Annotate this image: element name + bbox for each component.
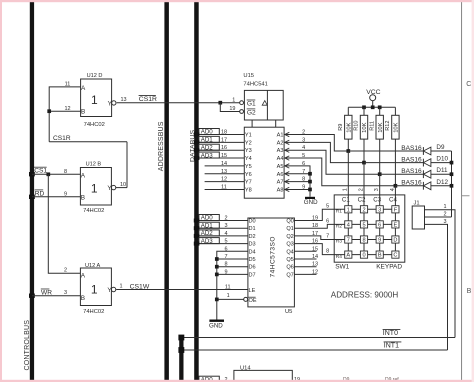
svg-text:A8: A8 <box>277 187 284 193</box>
DATABUS bus line <box>194 0 199 382</box>
U14 pin 19 number <box>294 377 300 383</box>
wire stub U5 Q6 <box>294 266 316 268</box>
svg-text:D7: D7 <box>249 272 256 278</box>
keypad key E <box>392 221 399 229</box>
U15 input arrow pin 5 <box>285 156 290 160</box>
svg-text:2: 2 <box>362 207 365 213</box>
svg-text:1: 1 <box>347 207 350 213</box>
U5 LE label <box>249 288 256 294</box>
keypad column 3 pin number <box>374 188 380 191</box>
wire WR to U12A.B <box>32 295 81 297</box>
U5 D4 label <box>249 249 256 255</box>
svg-text:A: A <box>81 85 86 92</box>
bus tap square AD3 U15 <box>194 156 200 160</box>
keypad column 1 line <box>347 195 349 255</box>
U14 pin 2 number <box>224 377 227 383</box>
net flag AD3 at U15 <box>199 152 219 159</box>
U5 OE label <box>248 297 257 304</box>
svg-text:19: 19 <box>229 106 235 112</box>
U15 A8 label <box>277 187 284 193</box>
svg-text:BAS16: BAS16 <box>401 156 422 163</box>
U15 input arrow pin 4 <box>285 148 290 152</box>
svg-text:GND: GND <box>209 323 223 330</box>
svg-text:D11: D11 <box>436 167 448 174</box>
keypad key 5 <box>360 221 367 229</box>
wire diode D9 anode right <box>431 150 452 152</box>
svg-text:ADDRESS: 9000H: ADDRESS: 9000H <box>331 291 399 300</box>
wire CS1 to U12B.A <box>32 173 81 175</box>
U5 right pin 17 number <box>312 231 318 237</box>
svg-text:RD: RD <box>35 190 45 197</box>
U15 A7 label <box>277 180 284 186</box>
U12D designator <box>87 73 103 79</box>
wire U5 pin7 <box>217 258 248 260</box>
svg-text:A7: A7 <box>277 180 284 186</box>
U15 body <box>244 127 284 198</box>
wire U12B output to bubble <box>116 187 127 189</box>
svg-text:4: 4 <box>347 223 350 229</box>
svg-text:F: F <box>394 207 398 213</box>
U15 Y6 label <box>245 172 252 178</box>
U12D output bubble <box>112 101 116 105</box>
U5 D3 label <box>249 242 256 248</box>
U15 left pin 12 number <box>221 177 227 183</box>
wire databus to U5 pin 3 <box>199 227 248 229</box>
U15 input arrow pin 7 <box>285 172 290 176</box>
U5 Q3 label <box>286 242 293 248</box>
svg-text:13: 13 <box>120 97 126 103</box>
wire U5 pin6 D4 to gnd tie <box>217 251 248 319</box>
diode D11 BAS16 <box>423 170 431 178</box>
svg-text:ADDRESSBUS: ADDRESSBUS <box>158 121 165 171</box>
zone divider tick <box>462 195 470 197</box>
svg-text:1: 1 <box>227 293 230 299</box>
bottom cut text fragment D9 ref <box>385 377 399 383</box>
net flag AD2 at U15 <box>199 144 219 151</box>
svg-text:Y2: Y2 <box>245 140 252 146</box>
svg-text:10K: 10K <box>347 122 353 132</box>
J1 pin 3 number <box>443 219 446 225</box>
J1 pin 2 number <box>443 212 446 218</box>
wire column 2 down to keypad <box>363 163 365 195</box>
U15 pin 1 number <box>232 97 235 103</box>
svg-text:Q7: Q7 <box>286 272 293 278</box>
svg-text:16: 16 <box>312 239 318 245</box>
svg-text:D6: D6 <box>249 265 256 271</box>
ADDRESSBUS label <box>158 121 165 171</box>
U5 right pin 19 number <box>312 216 318 222</box>
svg-text:5: 5 <box>326 203 329 209</box>
svg-text:10K: 10K <box>394 122 400 132</box>
U5 D5 label <box>249 257 256 263</box>
wire stub U5 Q4 <box>294 250 316 252</box>
keypad column 4 pin number <box>390 188 396 191</box>
resistor R11 body <box>376 107 383 174</box>
U15 left pin 17 number <box>221 137 227 143</box>
keypad row pin 8 number <box>326 249 329 255</box>
U5 right pin 15 number <box>312 246 318 252</box>
junction CS1 branch <box>46 172 50 176</box>
wire diode D12 anode right <box>431 185 452 187</box>
keypad column 4 line <box>394 195 396 255</box>
net flag AD0 at U15 <box>199 129 219 136</box>
svg-text:BAS16: BAS16 <box>401 180 422 187</box>
svg-text:74HC02: 74HC02 <box>84 122 105 128</box>
svg-text:SW1: SW1 <box>335 264 349 271</box>
wire U15 pin 6 to ground rail <box>285 166 310 197</box>
keypad row 3 line <box>334 239 395 241</box>
wire U15 pin 8 <box>285 181 310 183</box>
svg-text:C3: C3 <box>373 197 381 204</box>
U15 right pin 8 number <box>302 177 305 183</box>
svg-text:A2: A2 <box>277 140 284 146</box>
U15 right pin 5 number <box>302 153 305 159</box>
bus tap square AD1 U15 <box>194 140 200 144</box>
U5 Q5 label <box>286 257 293 263</box>
wire databus to U15 pin 18 <box>199 134 245 136</box>
page edge right <box>472 0 474 382</box>
svg-text:74HC573SO: 74HC573SO <box>270 236 277 277</box>
resistor R9 value 10K <box>347 122 353 132</box>
svg-text:B: B <box>81 109 85 116</box>
U15 right pin 7 number <box>302 169 305 175</box>
U12A output bubble <box>111 287 115 291</box>
U15 enable block stubs <box>252 120 276 127</box>
svg-text:11: 11 <box>225 284 231 290</box>
svg-text:D1: D1 <box>249 226 256 232</box>
U12B pin 9 number <box>64 191 67 197</box>
net flag AD0 at U5 <box>199 215 219 222</box>
wire row to diode D9 <box>348 150 423 152</box>
svg-text:AD0: AD0 <box>201 215 214 222</box>
U5 part value 74HC573SO <box>270 236 277 277</box>
U15 left pin 14 number <box>221 161 227 167</box>
svg-text:U15: U15 <box>243 73 254 79</box>
junction diode D12 <box>450 184 454 188</box>
keypad row pin 7 number <box>326 234 329 240</box>
svg-text:3: 3 <box>374 188 380 191</box>
U5 D0 label <box>249 219 256 225</box>
VCC symbol <box>366 89 380 108</box>
DATABUS label <box>189 130 196 162</box>
svg-text:0: 0 <box>362 253 365 259</box>
svg-text:1: 1 <box>232 97 235 103</box>
wire J1 pin1 to INT0 vertical <box>425 210 456 338</box>
U15 Y2 label <box>245 140 252 146</box>
svg-text:Q1: Q1 <box>286 226 293 232</box>
keypad key D <box>392 236 399 244</box>
resistor R10 body <box>360 107 367 162</box>
junction U5 pin9 <box>215 273 219 277</box>
keypad row 1 line <box>334 208 395 210</box>
node CS1R label <box>53 135 71 142</box>
U15 pin 19 number <box>229 106 235 112</box>
svg-text:BAS16: BAS16 <box>401 168 422 175</box>
svg-text:6: 6 <box>326 218 329 224</box>
J1 designator <box>414 200 420 206</box>
J1 pin 1 number <box>443 204 446 210</box>
wire U15 pin 5 staircase to column 4 <box>285 158 396 186</box>
svg-text:GND: GND <box>304 199 318 206</box>
wire branch to G2 <box>220 103 240 112</box>
wire stub U15 pin 11 <box>205 188 245 190</box>
U5 D7 label <box>249 272 256 278</box>
svg-text:R11: R11 <box>369 121 375 131</box>
keypad key F <box>392 206 399 214</box>
wire databus to U15 pin 16 <box>199 149 245 151</box>
wire databus to U5 pin 5 <box>199 243 248 245</box>
U15 G1 pin label <box>247 100 256 107</box>
net label INT1 <box>384 342 402 350</box>
keypad column header C2 <box>358 197 366 204</box>
U14 designator <box>240 365 251 371</box>
svg-text:G1: G1 <box>247 100 256 107</box>
diode D11 value label BAS16 <box>401 168 422 175</box>
svg-text:7: 7 <box>347 238 350 244</box>
keypad row label R1 <box>336 209 342 215</box>
wire databus to U5 pin 2 <box>199 220 248 222</box>
net flag WR <box>41 289 52 296</box>
svg-text:74HC02: 74HC02 <box>83 309 104 315</box>
svg-text:D10: D10 <box>436 156 448 163</box>
keypad key 8 <box>360 236 367 244</box>
svg-text:1: 1 <box>91 93 98 107</box>
U5 OE bubble <box>244 297 248 301</box>
wire U15 pin 2 staircase to column 1 <box>285 135 349 152</box>
keypad key 6 <box>376 221 383 229</box>
svg-text:AD1: AD1 <box>201 222 214 229</box>
net label INT0 <box>383 329 401 337</box>
svg-text:1: 1 <box>119 284 122 290</box>
resistor R10 name <box>354 121 360 131</box>
U15 A1 label <box>277 133 284 139</box>
wire column 1 down to keypad <box>347 151 349 195</box>
wire diode D10 anode right <box>431 162 452 164</box>
svg-text:U12 D: U12 D <box>87 73 103 79</box>
keypad row label R4 <box>336 254 342 260</box>
U5 pin 1 number <box>227 293 230 299</box>
net flag AD1 at U15 <box>199 136 219 143</box>
svg-text:B: B <box>378 253 382 259</box>
junction rail col2 <box>362 105 366 109</box>
svg-text:CS1R: CS1R <box>53 135 71 142</box>
wire databus to U15 pin 17 <box>199 141 245 143</box>
wire row to diode D10 <box>364 162 423 164</box>
svg-text:A: A <box>81 172 86 179</box>
U15 A3 label <box>277 148 284 154</box>
U12A pin 1 number <box>119 284 122 290</box>
svg-text:CONTROLBUS: CONTROLBUS <box>24 320 31 371</box>
svg-text:74HC02: 74HC02 <box>83 208 104 214</box>
wire column 4 down to keypad <box>394 186 396 195</box>
svg-text:Y6: Y6 <box>245 172 252 178</box>
bus tap square AD3 U5 <box>194 242 200 246</box>
U15 right pin 4 number <box>302 145 305 151</box>
net flag RD <box>35 190 45 197</box>
wire U5 pin8 <box>217 266 248 268</box>
INT bus stub line <box>179 336 183 382</box>
svg-text:D5: D5 <box>249 257 256 263</box>
svg-text:VCC: VCC <box>366 89 380 96</box>
U15 left pin 13 number <box>221 169 227 175</box>
svg-text:OE: OE <box>249 298 257 304</box>
svg-text:AD1: AD1 <box>201 137 214 144</box>
svg-text:74HC541: 74HC541 <box>243 81 268 87</box>
keypad row pin 5 number <box>326 203 329 209</box>
U5 left pin 3 number <box>224 223 227 229</box>
svg-text:D2: D2 <box>249 234 256 240</box>
svg-text:U5: U5 <box>285 309 292 315</box>
net flag CS1 <box>34 167 47 174</box>
U5 left pin 6 number <box>224 246 227 252</box>
keypad designator SW1 <box>335 264 349 271</box>
resistor R9 name <box>338 124 344 131</box>
U15 A6 label <box>277 172 284 178</box>
U5 left pin 4 number <box>224 231 227 237</box>
sheet border frame line <box>461 0 463 382</box>
U15 input arrow pin 2 <box>285 132 290 136</box>
svg-text:AD2: AD2 <box>201 144 214 151</box>
U12D pin 12 number <box>64 106 70 112</box>
keypad key 2 <box>360 206 367 214</box>
diode D11 designator <box>436 167 448 174</box>
wire CS1R-bar U12D.Y to U15 <box>117 102 240 104</box>
wire stub U5 Q5 <box>294 258 316 260</box>
wire U12D input B <box>49 110 81 112</box>
resistor R9 body <box>345 107 352 151</box>
keypad key 4 <box>345 221 352 229</box>
zone letter B <box>467 288 472 295</box>
svg-text:U12 B: U12 B <box>86 162 102 168</box>
U12A part value 74HC02 <box>83 309 104 315</box>
svg-text:U12 A: U12 A <box>85 263 101 269</box>
VCC rail <box>348 106 395 108</box>
bus tap square AD1 U5 <box>194 226 200 230</box>
wire OE to gnd tie <box>217 298 244 300</box>
U5 pin 11 number <box>225 284 231 290</box>
U12D part value 74HC02 <box>84 122 105 128</box>
keypad row 4 line <box>334 254 395 256</box>
wire stub U5 Q7 <box>294 273 316 275</box>
U15 enable block <box>244 90 283 120</box>
U12A pin 3 number <box>64 290 67 296</box>
svg-text:A: A <box>346 253 350 259</box>
svg-text:G2: G2 <box>247 109 256 116</box>
U12A designator <box>85 263 101 269</box>
U15 input arrow pin 8 <box>285 179 290 183</box>
keypad row pin 6 number <box>326 218 329 224</box>
svg-text:Q0: Q0 <box>286 219 293 225</box>
diode D9 designator <box>436 144 445 151</box>
nor-gate U12D body <box>81 79 113 117</box>
bottom cut text fragment D9 <box>343 377 350 383</box>
junction column 2 row <box>362 161 366 165</box>
ground symbol at U15 <box>304 197 318 206</box>
svg-text:18: 18 <box>312 223 318 229</box>
keypad column header C1 <box>342 197 350 204</box>
svg-text:10K: 10K <box>362 122 368 132</box>
diode D9 value label BAS16 <box>401 145 422 152</box>
svg-text:R9: R9 <box>338 124 344 131</box>
diode D10 value label BAS16 <box>401 156 422 163</box>
svg-text:C: C <box>393 253 397 259</box>
junction diode D11 <box>450 172 454 176</box>
wire U15 pin 9 <box>285 188 310 190</box>
svg-text:7: 7 <box>326 234 329 240</box>
wire U5 Q2 to keypad row 3 <box>294 236 334 240</box>
bus tap square CS1 <box>29 172 35 176</box>
U5 designator <box>285 309 292 315</box>
wire diode D11 anode right <box>431 173 452 175</box>
wire INT0 <box>181 337 455 339</box>
svg-text:AD0: AD0 <box>201 129 214 136</box>
wire U15 pin 7 <box>285 173 310 175</box>
resistor R12 body <box>392 107 399 186</box>
keypad column header C3 <box>373 197 381 204</box>
ADDRESSBUS bus line <box>164 0 169 382</box>
U14 body top <box>234 370 292 382</box>
junction G1/G2 tie <box>218 101 222 105</box>
svg-text:9: 9 <box>378 238 381 244</box>
U12B part value 74HC02 <box>83 208 104 214</box>
bus tap square RD <box>29 195 35 199</box>
svg-text:Y7: Y7 <box>245 180 252 186</box>
U15 right pin 6 number <box>302 161 305 167</box>
svg-text:Y5: Y5 <box>245 164 252 170</box>
U5 right pin 13 number <box>312 262 318 268</box>
bus tap square AD2 U15 <box>194 148 200 152</box>
U15 left pin 15 number <box>221 153 227 159</box>
resistor R12 name <box>385 121 391 131</box>
net flag AD1 at U5 <box>199 222 219 229</box>
U15 left pin 16 number <box>221 145 227 151</box>
svg-text:A6: A6 <box>277 172 284 178</box>
CONTROLBUS label <box>24 320 31 371</box>
net flag AD0 at U14 <box>199 376 234 383</box>
U12D pin 11 number <box>65 81 71 87</box>
U15 input arrow pin 3 <box>285 140 290 144</box>
U15 right pin 3 number <box>302 137 305 143</box>
svg-text:BAS16: BAS16 <box>401 145 422 152</box>
resistor R11 name <box>369 121 375 131</box>
resistor R10 value 10K <box>362 122 368 132</box>
bus tap square INT0 <box>178 335 184 341</box>
diode D12 BAS16 <box>423 182 431 190</box>
keypad row 2 line <box>334 223 395 225</box>
wire row to diode D12 <box>395 185 423 187</box>
diode D10 designator <box>436 156 448 163</box>
keypad key 3 <box>376 206 383 214</box>
U5 left pin 2 number <box>224 216 227 222</box>
resistor R11 value 10K <box>378 122 384 132</box>
keypad key 0 <box>360 251 367 259</box>
U15 G2 pin label <box>247 109 256 116</box>
keypad row label R3 <box>336 239 342 245</box>
svg-text:C4: C4 <box>389 197 397 204</box>
U15 left pin 18 number <box>221 130 227 136</box>
U5 Q4 label <box>286 249 293 255</box>
keypad outer box <box>334 195 405 262</box>
svg-text:LE: LE <box>249 288 256 294</box>
text ADDRESS: 9000H <box>331 291 399 300</box>
wire CS1R feedback vertical to U12B output <box>126 142 128 188</box>
svg-text:R10: R10 <box>354 121 360 131</box>
keypad label KEYPAD <box>376 264 402 271</box>
U5 right pin 18 number <box>312 223 318 229</box>
keypad column 3 line <box>379 195 381 255</box>
junction rail col3 <box>378 105 382 109</box>
U15 Y4 label <box>245 156 252 162</box>
